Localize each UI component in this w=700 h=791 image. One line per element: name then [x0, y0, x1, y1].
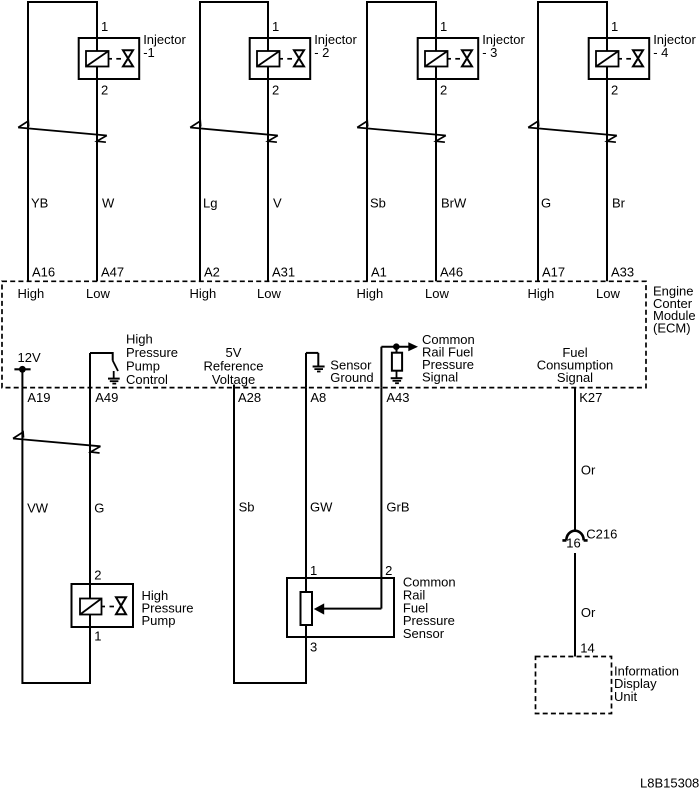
- wire: injector 4 low side (Br): [606, 2, 608, 51]
- wire: injector 2 low side (V): [267, 2, 269, 51]
- label Engine Conter Module (ECM): [653, 283, 696, 335]
- svg-text:Control: Control: [126, 372, 168, 387]
- wire: injector 2 high side (Lg): [199, 2, 201, 281]
- svg-text:- 2: - 2: [314, 45, 329, 60]
- svg-text:Lg: Lg: [203, 196, 217, 211]
- svg-text:Or: Or: [581, 605, 596, 620]
- svg-text:1: 1: [611, 19, 618, 34]
- ground (pump control): [108, 371, 120, 384]
- svg-text:- 4: - 4: [653, 45, 668, 60]
- svg-text:A19: A19: [27, 390, 50, 405]
- ground (below resistor): [391, 371, 403, 384]
- wire: injector 1 top jumper: [27, 1, 98, 3]
- label Common Rail Fuel Pressure Signal: [422, 332, 475, 385]
- svg-text:Signal: Signal: [557, 370, 593, 385]
- svg-text:12V: 12V: [18, 350, 41, 365]
- svg-text:Sb: Sb: [370, 196, 386, 211]
- svg-text:A8: A8: [310, 390, 326, 405]
- svg-text:A46: A46: [440, 265, 463, 280]
- wire: sensor ground to pin A8 (inside ECM): [305, 353, 307, 388]
- information display unit (dashed box): [536, 657, 612, 714]
- svg-text:2: 2: [440, 83, 447, 98]
- svg-text:2: 2: [101, 83, 108, 98]
- junction dot: [393, 343, 400, 350]
- svg-text:Or: Or: [581, 463, 596, 478]
- label Common Rail Fuel Pressure Sensor: [403, 575, 456, 642]
- svg-text:Low: Low: [257, 286, 281, 301]
- wire: switch to pin A49 (inside ECM): [89, 353, 91, 388]
- 12V supply terminal: [14, 366, 30, 373]
- svg-text:V: V: [273, 196, 282, 211]
- wire: injector 3 low side (BrW): [435, 2, 437, 51]
- svg-text:A2: A2: [204, 265, 220, 280]
- svg-text:1: 1: [310, 563, 317, 578]
- svg-text:High: High: [190, 286, 217, 301]
- svg-text:(ECM): (ECM): [653, 321, 691, 336]
- injector 2 (Injector - 2): [250, 38, 311, 79]
- svg-text:1: 1: [272, 19, 279, 34]
- high pressure pump (solenoid): [72, 584, 134, 627]
- svg-text:A16: A16: [32, 265, 55, 280]
- twisted pair marker (injector 2 wires): [190, 121, 278, 142]
- svg-text:High: High: [18, 286, 45, 301]
- svg-text:14: 14: [580, 641, 594, 656]
- twisted pair marker (pump wires): [13, 432, 101, 453]
- svg-text:Low: Low: [86, 286, 110, 301]
- label Injector - 4: [653, 32, 696, 60]
- svg-text:Ground: Ground: [330, 370, 373, 385]
- svg-text:2: 2: [611, 83, 618, 98]
- wire: A8 to sensor pin 1 (GW): [305, 388, 307, 592]
- svg-text:Unit: Unit: [614, 689, 638, 704]
- svg-text:G: G: [94, 501, 104, 516]
- wire: A43 to sensor pin 2 (GrB): [380, 388, 382, 609]
- wire: A28 to sensor pin 3 (Sb): [234, 385, 306, 684]
- resistor (pull-up, pressure signal): [392, 347, 402, 371]
- common rail fuel pressure sensor (potentiometer): [287, 578, 394, 637]
- svg-text:16: 16: [566, 536, 580, 551]
- wire: pressure signal to pin A43 (inside ECM): [380, 347, 382, 388]
- label Injector - 2: [314, 32, 357, 60]
- injector 1 (Injector -1): [79, 38, 140, 79]
- ground (sensor ground): [306, 353, 325, 372]
- twisted pair marker (injector 1 wires): [18, 121, 107, 142]
- wire: injector 1 high side (YB): [27, 2, 29, 281]
- label High Pressure Pump Control: [126, 332, 178, 388]
- wire: C216 to display unit (Or): [574, 553, 576, 657]
- svg-text:YB: YB: [31, 196, 48, 211]
- svg-text:K27: K27: [579, 390, 602, 405]
- svg-text:A33: A33: [611, 265, 634, 280]
- wire: pressure signal node (inside ECM): [381, 346, 409, 348]
- svg-text:G: G: [541, 196, 551, 211]
- svg-text:VW: VW: [27, 501, 49, 516]
- svg-text:A47: A47: [101, 265, 124, 280]
- svg-text:High: High: [528, 286, 555, 301]
- svg-text:1: 1: [101, 19, 108, 34]
- svg-text:Sb: Sb: [239, 500, 255, 515]
- injector 3 (Injector - 3): [418, 38, 479, 79]
- svg-text:1: 1: [440, 19, 447, 34]
- svg-text:2: 2: [385, 563, 392, 578]
- svg-text:-1: -1: [143, 45, 155, 60]
- twisted pair marker (injector 4 wires): [528, 121, 617, 142]
- label Injector -1: [143, 32, 186, 60]
- svg-text:High: High: [357, 286, 384, 301]
- svg-text:A28: A28: [238, 390, 261, 405]
- svg-text:A17: A17: [542, 265, 565, 280]
- wire: injector 4 top jumper: [537, 1, 608, 3]
- svg-text:C216: C216: [586, 527, 617, 542]
- wire: injector 4 high side (G): [537, 2, 539, 281]
- wire: injector 2 top jumper: [199, 1, 269, 3]
- wire: A19 to pump pin 1 (VW): [22, 388, 90, 683]
- injector 4 (Injector - 4): [589, 38, 650, 79]
- svg-text:2: 2: [272, 83, 279, 98]
- svg-text:A49: A49: [95, 390, 118, 405]
- svg-text:Low: Low: [596, 286, 620, 301]
- twisted pair marker (injector 3 wires): [357, 121, 446, 142]
- connector C216 (in-line): [562, 531, 587, 541]
- svg-text:Br: Br: [612, 196, 626, 211]
- signal arrow (Common Rail Fuel Pressure Signal): [408, 342, 418, 351]
- svg-text:A31: A31: [272, 265, 295, 280]
- svg-text:Low: Low: [425, 286, 449, 301]
- svg-text:Pump: Pump: [142, 613, 176, 628]
- svg-text:W: W: [102, 196, 115, 211]
- svg-text:A1: A1: [371, 265, 387, 280]
- wire: A49 to pump pin 2 (G): [89, 388, 91, 584]
- svg-text:A43: A43: [386, 390, 409, 405]
- label Sensor Ground: [330, 358, 373, 385]
- svg-text:Signal: Signal: [422, 370, 458, 385]
- svg-text:GrB: GrB: [386, 500, 409, 515]
- svg-text:1: 1: [94, 629, 101, 644]
- svg-text:3: 3: [310, 640, 317, 655]
- wire: injector 3 top jumper: [366, 1, 437, 3]
- svg-text:GW: GW: [310, 500, 333, 515]
- label 5V Reference Voltage: [204, 345, 264, 387]
- svg-text:2: 2: [94, 568, 101, 583]
- wire: K27 to connector C216 (Or): [574, 388, 576, 531]
- wire: 12V to pin A19 (inside ECM): [21, 369, 23, 387]
- svg-text:L8B15308: L8B15308: [640, 776, 699, 791]
- label Information Display Unit: [614, 664, 679, 704]
- switch: high pressure pump control driver: [90, 352, 118, 371]
- wire: injector 1 low side (W): [96, 2, 98, 51]
- ECM module U1: Engine Conter Module (dashed box): [2, 281, 646, 387]
- svg-text:- 3: - 3: [482, 45, 497, 60]
- label High Pressure Pump: [142, 588, 194, 628]
- label Injector - 3: [482, 32, 525, 60]
- label Fuel Consumption Signal: [537, 345, 614, 385]
- svg-text:BrW: BrW: [441, 196, 467, 211]
- svg-text:Sensor: Sensor: [403, 626, 445, 641]
- wire: injector 3 high side (Sb): [366, 2, 368, 281]
